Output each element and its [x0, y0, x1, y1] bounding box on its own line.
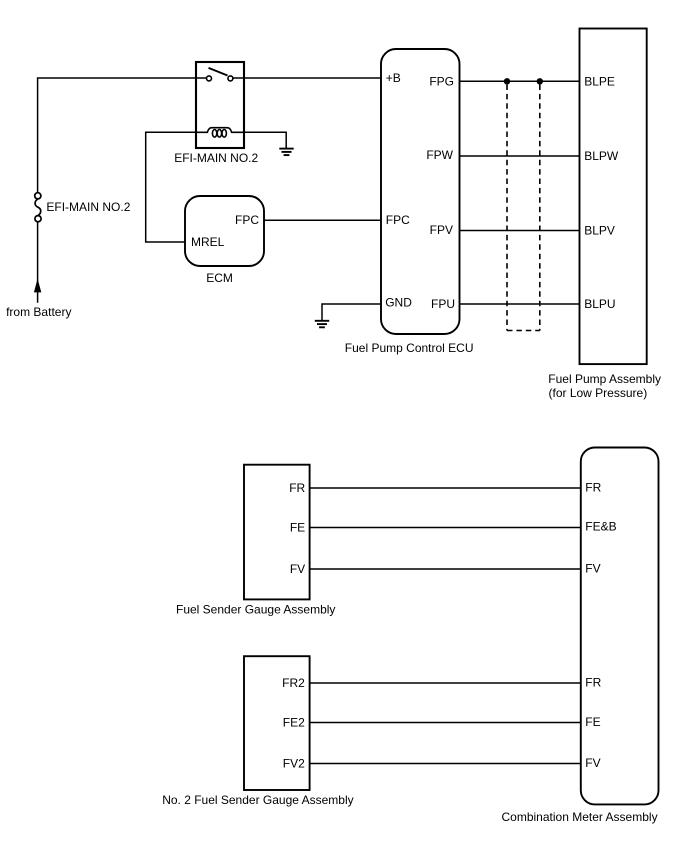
- Fuel Pump Assembly: [580, 29, 647, 365]
- svg-text:FPW: FPW: [426, 148, 453, 162]
- wire FV2: [310, 763, 581, 765]
- arrow from battery: [34, 279, 41, 293]
- svg-text:EFI-MAIN NO.2: EFI-MAIN NO.2: [46, 200, 130, 214]
- ground GND: [315, 321, 329, 328]
- svg-text:GND: GND: [385, 296, 412, 310]
- svg-text:FV2: FV2: [283, 757, 305, 771]
- wire FPU-BLPU: [460, 303, 580, 305]
- Fuel Pump Control ECU U2: [381, 49, 460, 334]
- svg-text:FE: FE: [290, 521, 305, 535]
- wire FE: [310, 527, 581, 529]
- svg-text:FE: FE: [585, 715, 600, 729]
- svg-text:BLPW: BLPW: [584, 149, 619, 163]
- svg-text:BLPV: BLPV: [584, 224, 615, 238]
- svg-text:FR2: FR2: [282, 676, 305, 690]
- wire GND: [322, 304, 381, 320]
- fuse EFI-MAIN NO.2: [35, 193, 41, 222]
- svg-text:FV: FV: [290, 562, 305, 576]
- relay EFI-MAIN NO.2: [196, 62, 244, 148]
- svg-text:FPC: FPC: [386, 213, 410, 227]
- wire relay coil to ground: [244, 132, 286, 148]
- svg-text:No. 2 Fuel Sender Gauge Assemb: No. 2 Fuel Sender Gauge Assembly: [162, 793, 353, 807]
- wire FPG-BLPE: [460, 80, 580, 82]
- Combination Meter Assembly: [581, 448, 659, 805]
- wire FR: [310, 487, 581, 489]
- svg-text:(for Low Pressure): (for Low Pressure): [549, 386, 648, 400]
- svg-text:FV: FV: [585, 562, 600, 576]
- svg-text:EFI-MAIN NO.2: EFI-MAIN NO.2: [174, 151, 258, 165]
- svg-text:ECM: ECM: [206, 271, 233, 285]
- ground relay coil: [279, 149, 293, 156]
- junction dot 2: [537, 78, 543, 84]
- shield (dashed): [507, 85, 540, 331]
- junction dot 1: [504, 78, 510, 84]
- svg-text:Fuel Pump Assembly: Fuel Pump Assembly: [548, 372, 661, 386]
- wire FPV-BLPV: [460, 230, 580, 232]
- wire MREL to relay coil: [146, 132, 196, 242]
- svg-text:Fuel Pump Control ECU: Fuel Pump Control ECU: [345, 341, 474, 355]
- wire battery feed to relay: [38, 78, 196, 303]
- svg-text:FE&B: FE&B: [585, 520, 616, 534]
- wire FE2: [310, 722, 581, 724]
- svg-text:Fuel Sender Gauge Assembly: Fuel Sender Gauge Assembly: [176, 603, 335, 617]
- svg-text:FPU: FPU: [431, 297, 455, 311]
- svg-text:MREL: MREL: [191, 235, 225, 249]
- wire FV: [310, 568, 581, 570]
- wire FPW-BLPW: [460, 155, 580, 157]
- svg-text:FPV: FPV: [430, 223, 453, 237]
- No. 2 Fuel Sender Gauge Assembly: [244, 656, 310, 790]
- wire FPC: [264, 219, 381, 221]
- svg-text:FE2: FE2: [283, 716, 305, 730]
- label Fuel Pump Assembly: [548, 372, 661, 400]
- svg-text:Combination Meter Assembly: Combination Meter Assembly: [502, 810, 658, 824]
- svg-text:FV: FV: [585, 756, 600, 770]
- svg-text:FR: FR: [289, 481, 305, 495]
- svg-text:+B: +B: [386, 71, 401, 85]
- svg-text:from Battery: from Battery: [6, 305, 71, 319]
- svg-text:BLPE: BLPE: [584, 74, 615, 88]
- svg-text:BLPU: BLPU: [584, 297, 615, 311]
- wire FR2: [310, 682, 581, 684]
- ECM U1: [185, 196, 264, 266]
- Fuel Sender Gauge Assembly: [244, 465, 310, 600]
- svg-text:FPC: FPC: [235, 213, 259, 227]
- wire relay switch to +B: [244, 77, 381, 79]
- svg-text:FR: FR: [585, 676, 601, 690]
- svg-text:FPG: FPG: [429, 74, 454, 88]
- svg-text:FR: FR: [585, 481, 601, 495]
